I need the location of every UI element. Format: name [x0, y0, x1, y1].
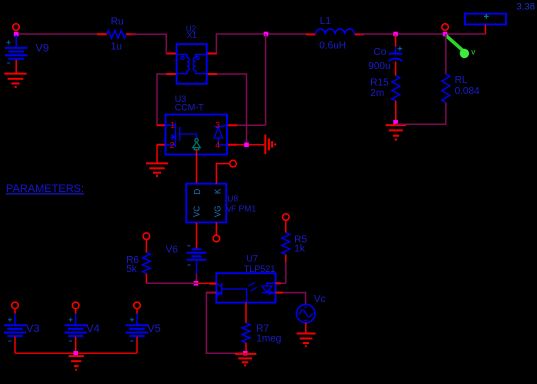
label PARAMETERS:: [6, 183, 84, 195]
svg-text:Co: Co: [374, 47, 387, 58]
wire transformer top-right to output rail: [216, 34, 307, 54]
wire feedback rail R6 to opto input: [146, 282, 196, 284]
ground under V9: [4, 74, 26, 89]
red pin stubs U7: [206, 283, 283, 292]
svg-text:2m: 2m: [370, 88, 384, 99]
wire R15 bottom to RL bottom: [396, 103, 446, 125]
node circle above V9: [13, 24, 20, 31]
wire U7 collector up to R5: [281, 262, 286, 283]
node circle output: [442, 24, 449, 31]
svg-text:VC: VC: [193, 206, 202, 217]
wire junction to opto: [196, 282, 216, 284]
svg-text:0.084: 0.084: [455, 86, 480, 97]
svg-text:CCM-T: CCM-T: [175, 103, 204, 113]
resistor R15 (ESR): [370, 76, 400, 123]
svg-text:PARAMETERS:: PARAMETERS:: [6, 183, 84, 195]
wire bottom rail V3 V4 V5: [15, 352, 137, 354]
LED inside U7: [262, 283, 276, 294]
sine source Vc: [297, 294, 326, 323]
sideways ground at U3 pin4: [265, 135, 276, 155]
voltage source V3: [4, 302, 40, 353]
junction U3 pin4: [244, 143, 249, 148]
node circle K: [230, 160, 237, 167]
voltmeter box (display): [465, 14, 506, 34]
wire U8 VG pin to node circle: [215, 222, 217, 235]
wire U3 pin2 to ground: [156, 145, 158, 164]
svg-text:V5: V5: [147, 323, 160, 335]
junction V9 top: [14, 32, 19, 37]
wire transformer bottom-left to U3 pin1: [157, 74, 166, 125]
wire transformer bottom-right down to U3 pin4 net: [217, 74, 247, 145]
svg-text:V3: V3: [26, 323, 39, 335]
wire U8 K pin to node circle: [216, 164, 229, 184]
svg-text:4: 4: [215, 140, 220, 150]
svg-text:V9: V9: [36, 43, 49, 55]
svg-text:V6: V6: [166, 244, 179, 255]
gate driver triangle inside U3: [193, 139, 201, 150]
probe v (green marker): [446, 36, 475, 59]
svg-text:R15: R15: [370, 77, 389, 88]
svg-text:L1: L1: [320, 16, 332, 27]
light arrows inside U7: [249, 282, 257, 291]
svg-text:Ru: Ru: [111, 16, 124, 27]
junction top rail at x=266: [264, 32, 269, 37]
resistor Ru: [97, 16, 136, 52]
transformer U2 X1: [166, 25, 217, 84]
svg-text:5k: 5k: [126, 264, 138, 275]
svg-text:1: 1: [170, 120, 175, 130]
junction R15 bottom: [393, 120, 398, 125]
ground at R7: [235, 354, 256, 367]
voltage source V9: [5, 35, 49, 73]
optocoupler U7 TLP521: [216, 253, 275, 302]
svg-text:Vc: Vc: [314, 294, 326, 305]
ground under R15: [386, 125, 407, 141]
svg-text:1meg: 1meg: [256, 333, 281, 344]
wire U3 gate to U8 D pin: [196, 150, 198, 184]
resistor R6: [126, 240, 150, 284]
wire input rail from V9 to Ru: [16, 33, 104, 35]
resistor RL: [442, 34, 480, 103]
capacitor Co (polarized): [368, 34, 402, 76]
ground under Vc: [297, 334, 316, 348]
svg-text:X1: X1: [187, 31, 197, 40]
svg-text:U8: U8: [227, 194, 238, 204]
svg-text:K: K: [214, 188, 223, 194]
node circle above R5: [283, 214, 290, 221]
wire V6 to feedback rail: [196, 274, 198, 284]
ground under U3 pin2: [146, 163, 168, 177]
svg-text:1u: 1u: [111, 41, 122, 52]
ground under V4: [69, 356, 84, 371]
junction R7 bottom: [243, 351, 248, 356]
wire U7 emitter to bottom ground rail: [206, 293, 244, 354]
svg-text:2: 2: [170, 140, 175, 150]
node circle above R6: [143, 233, 150, 240]
mosfet inside U3: [166, 123, 197, 148]
converter block U3 CCM-T: [157, 94, 237, 154]
PWM block U8 vF PM1: [186, 184, 256, 223]
U3 pin numbers: [170, 120, 220, 150]
svg-text:VG: VG: [213, 206, 222, 218]
resistor R7: [242, 303, 281, 354]
junction under V4: [73, 351, 78, 356]
wire Ru to transformer primary top: [131, 34, 166, 53]
svg-text:3.38: 3.38: [517, 1, 536, 12]
junction at RL branch: [443, 32, 448, 37]
wire U8 VC to V6: [196, 222, 198, 248]
svg-text:3: 3: [215, 120, 220, 130]
svg-text:900u: 900u: [368, 61, 390, 72]
node circle VG: [213, 235, 220, 242]
svg-text:U7: U7: [246, 253, 258, 263]
voltage source V4: [64, 302, 99, 353]
wire U7 LED cathode to Vc: [283, 293, 306, 304]
svg-text:D: D: [193, 188, 202, 194]
junction at Co branch: [393, 32, 398, 37]
svg-text:0.6uH: 0.6uH: [319, 40, 346, 51]
voltage source V6: [166, 244, 207, 273]
inductor L1: [306, 16, 364, 52]
svg-text:1k: 1k: [294, 244, 306, 255]
wire L1 to voltmeter branch: [360, 33, 486, 35]
junction V6 bottom: [194, 281, 199, 286]
svg-text:V4: V4: [86, 323, 99, 335]
resistor R5: [282, 220, 308, 254]
svg-text:v: v: [471, 48, 475, 57]
wire U3 pin3 to output vertical: [237, 34, 265, 125]
svg-text:TLP521: TLP521: [244, 264, 276, 274]
wire U3 pin4 to sideways ground: [237, 144, 264, 146]
phototransistor inside U7: [216, 283, 246, 303]
diode inside U3: [214, 125, 227, 145]
voltage source V5: [126, 302, 161, 353]
svg-text:RL: RL: [455, 75, 468, 86]
svg-text:vF PM1: vF PM1: [227, 203, 257, 213]
